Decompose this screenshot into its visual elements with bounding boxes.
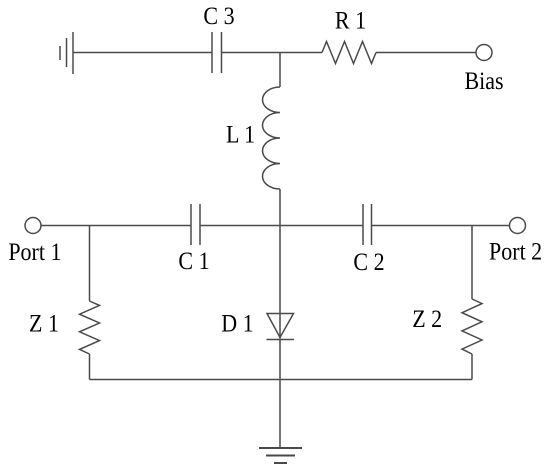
svg-text:L 1: L 1 (226, 121, 255, 149)
svg-text:D 1: D 1 (221, 310, 253, 338)
svg-text:Port 2: Port 2 (489, 238, 542, 266)
svg-text:Port 1: Port 1 (8, 239, 61, 267)
svg-text:C 2: C 2 (353, 249, 384, 277)
svg-text:Bias: Bias (464, 68, 503, 96)
svg-text:R 1: R 1 (335, 7, 366, 35)
svg-text:C 3: C 3 (203, 3, 234, 31)
svg-text:C 1: C 1 (178, 248, 209, 276)
svg-text:Z 1: Z 1 (29, 310, 59, 338)
svg-text:Z 2: Z 2 (412, 306, 442, 334)
